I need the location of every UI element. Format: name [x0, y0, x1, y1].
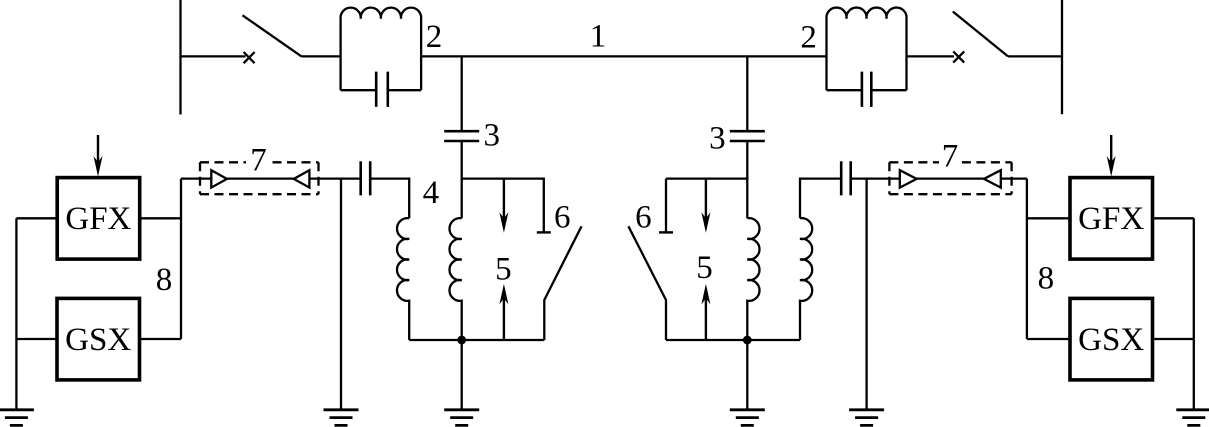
transformer right winding B [800, 218, 812, 340]
bottom rail right [666, 339, 800, 341]
arrester 5 right down arrow shaft [705, 179, 707, 220]
wire rail-to-ground right [746, 340, 748, 410]
white gap for label 7 right [939, 146, 961, 170]
wire GFX right stubs [1027, 217, 1194, 219]
line trap 2 right: capacitor plates [862, 72, 871, 107]
disconnector switch blade right [953, 12, 1008, 57]
HF cable right arrowhead right-pointing [900, 170, 917, 187]
HF cable 7 right dashed box [889, 162, 1011, 194]
wire HF line right horizontal [851, 177, 1027, 179]
wire branch to earth switch left [462, 179, 544, 233]
PLC terminal GSX right box [1070, 298, 1153, 380]
breaker cross mark right [953, 51, 964, 62]
earth switch 6 right stem [665, 179, 667, 233]
bottom rail left [409, 339, 544, 341]
svg-text:2: 2 [800, 19, 817, 55]
arrow into GFX right shaft [1110, 135, 1112, 163]
wire ground branch left [340, 179, 342, 410]
wire outer vertical left [15, 218, 17, 409]
earth switch 6 left contact bar [537, 231, 551, 233]
svg-text:1: 1 [590, 18, 607, 54]
HF cable left arrowhead right-pointing [211, 170, 227, 187]
svg-text:4: 4 [423, 175, 440, 211]
wire switch-to-trap left [302, 55, 341, 57]
wire cap-to-transformer left [370, 179, 409, 219]
wire rail-to-ground left [461, 340, 463, 410]
PLC terminal GFX right box [1070, 178, 1153, 260]
earth switch 6 left blade [544, 226, 581, 340]
svg-text:8: 8 [1038, 260, 1055, 296]
arrester 5 left down arrowhead [499, 212, 508, 233]
arrester 5 left up arrowhead [499, 284, 508, 305]
wire transformer-to-cap right [800, 179, 841, 219]
wire cap3-to-coil left [461, 141, 463, 218]
wire trap-to-x right [907, 55, 955, 57]
wire HF line left horizontal [181, 177, 361, 179]
svg-text:6: 6 [554, 200, 571, 236]
wire outer vertical right [1193, 218, 1195, 409]
line trap 2 left: bottom edge [341, 89, 422, 91]
line trap 2 left: capacitor plates [376, 72, 388, 107]
line trap 2 left: coil [341, 8, 422, 91]
svg-text:7: 7 [250, 142, 267, 178]
line trap 2 right: bottom edge [827, 89, 907, 91]
ground under branch right [849, 410, 884, 426]
ground far right [1176, 410, 1209, 426]
coupling capacitor 3 right plates [730, 131, 765, 141]
svg-text:3: 3 [709, 120, 726, 156]
wire tap down right [746, 56, 748, 131]
wire branch to earth switch right [666, 177, 747, 179]
arrow into GFX right head [1107, 156, 1116, 177]
earth switch 6 right blade [628, 226, 666, 340]
HF cable 7 left dashed box [200, 162, 319, 194]
arrester 5 right up arrowhead [701, 284, 710, 305]
wire GFX left stubs [16, 217, 181, 219]
junction dot right [743, 336, 752, 345]
series capacitor right plates [841, 161, 851, 195]
arrester 5 right down arrowhead [701, 212, 710, 233]
wire power line 1 center [421, 55, 826, 57]
arrow into GFX left head [94, 156, 103, 177]
breaker cross mark left [244, 52, 255, 63]
svg-text:GSX: GSX [65, 322, 131, 358]
arrow into GFX left shaft [97, 135, 99, 163]
svg-text:5: 5 [495, 252, 512, 288]
svg-text:7: 7 [942, 138, 959, 174]
PLC terminal GFX left box [57, 178, 140, 260]
earth switch 6 right contact bar [659, 231, 673, 233]
transformer 4 left winding B [449, 218, 461, 340]
PLC terminal GSX left box [57, 298, 140, 380]
wire inner vertical right [1026, 179, 1028, 339]
arrester 5 left up arrow shaft [503, 297, 505, 340]
series capacitor left plates [361, 161, 371, 195]
wire GSX right stubs [1027, 338, 1194, 340]
disconnector switch blade left [243, 15, 302, 56]
wire tap down left [461, 56, 463, 131]
coupling capacitor 3 left plates [444, 131, 479, 141]
ground under transformer left [444, 410, 479, 426]
ground far left [0, 410, 34, 426]
wire ground branch right [865, 179, 867, 410]
arrester 5 right up arrow shaft [705, 297, 707, 340]
arrester 5 left down arrow shaft [503, 179, 505, 220]
junction dot left [457, 336, 466, 345]
svg-text:6: 6 [635, 200, 652, 236]
HF cable right arrowhead left-pointing [984, 170, 1001, 187]
ground under transformer right [730, 410, 765, 426]
ground under branch left [324, 410, 359, 426]
wire inner vertical left [180, 179, 182, 339]
wire cap3-to-coil right [746, 141, 748, 218]
wire GSX left stubs [16, 338, 181, 340]
svg-text:8: 8 [156, 262, 173, 298]
HF cable left arrowhead left-pointing [294, 170, 310, 187]
transformer right winding A [747, 218, 759, 340]
svg-text:GSX: GSX [1078, 322, 1144, 358]
white gap for label 7 left [246, 150, 268, 174]
svg-text:5: 5 [696, 250, 713, 286]
wire switch-to-bus right [1008, 55, 1062, 57]
svg-text:GFX: GFX [1078, 201, 1144, 237]
busbar left [179, 0, 181, 115]
svg-text:3: 3 [483, 117, 500, 153]
line trap 2 right: coil [826, 8, 906, 91]
wire power line seg bus-to-x left [181, 55, 246, 57]
busbar right [1061, 0, 1063, 114]
svg-text:2: 2 [426, 19, 443, 55]
transformer 4 left winding A [397, 218, 409, 340]
svg-text:GFX: GFX [65, 201, 131, 237]
